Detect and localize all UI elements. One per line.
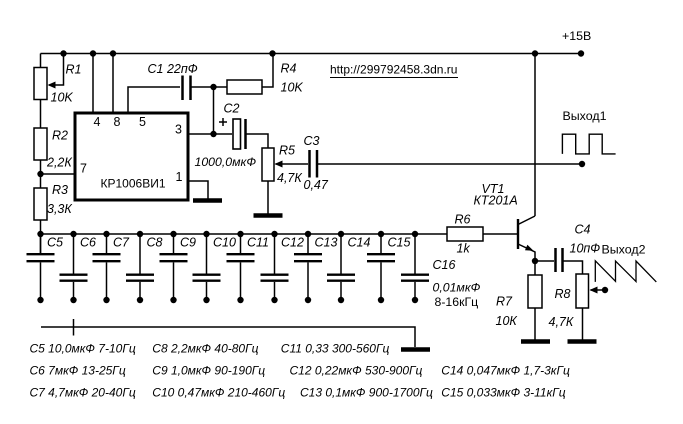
- svg-text:C11: C11: [247, 236, 269, 250]
- svg-text:С15 0,033мкФ 3-11кГц: С15 0,033мкФ 3-11кГц: [441, 385, 565, 399]
- wire R2 to R3: [40, 160, 42, 188]
- svg-text:0,01мкФ: 0,01мкФ: [433, 281, 481, 295]
- node bus junction C15: [378, 231, 384, 237]
- svg-text:C5: C5: [47, 236, 63, 250]
- node junction pin4 on rail: [90, 50, 96, 56]
- svg-text:С9 1,0мкФ 90-190Гц: С9 1,0мкФ 90-190Гц: [152, 363, 265, 377]
- node junction pin8 on rail: [110, 50, 116, 56]
- wire selector common: [41, 327, 415, 347]
- label R6 value 1k: [457, 242, 471, 256]
- wire R4 to rail: [262, 54, 273, 88]
- transistor VT1 collector: [518, 216, 535, 225]
- label R3 value 3,3K: [47, 202, 72, 216]
- svg-text:КР1006ВИ1: КР1006ВИ1: [101, 177, 166, 191]
- svg-text:http://299792458.3dn.ru: http://299792458.3dn.ru: [330, 63, 457, 77]
- node output1 terminal: [579, 161, 585, 167]
- capacitor C3 left plate: [308, 150, 311, 178]
- node bus junction C8: [137, 231, 143, 237]
- svg-text:4,7К: 4,7К: [277, 171, 302, 185]
- label VT1: [482, 182, 505, 196]
- capacitor C13: [294, 234, 322, 300]
- svg-text:R8: R8: [555, 287, 571, 301]
- label URL: [330, 63, 457, 77]
- op-amp U1 timer KR1006VI1 body: [75, 113, 188, 200]
- wire R5 wiper from C3: [276, 163, 309, 165]
- svg-text:1000,0мкФ: 1000,0мкФ: [195, 155, 257, 169]
- label C9: [180, 236, 196, 250]
- wire C2 to R5: [247, 134, 269, 148]
- node bus junction C13: [305, 231, 311, 237]
- svg-text:C4: C4: [575, 223, 591, 237]
- label note C5: [30, 341, 136, 355]
- label note C6: [30, 363, 126, 377]
- node bus junction C16: [412, 231, 418, 237]
- wire C4 to R8: [564, 261, 583, 274]
- pin 5 wire: [128, 87, 180, 113]
- svg-text:3,3К: 3,3К: [47, 202, 72, 216]
- svg-text:1: 1: [176, 170, 183, 184]
- label C16 value 0,01мкФ: [433, 281, 481, 295]
- label C16: [433, 258, 456, 272]
- node +15V terminal: [578, 50, 584, 56]
- svg-text:7: 7: [80, 162, 87, 176]
- svg-text:10К: 10К: [496, 314, 518, 328]
- VT1 emitter arrowhead: [525, 245, 534, 251]
- node C6 bottom contact: [70, 297, 76, 303]
- resistor R1: [34, 68, 47, 100]
- label C2 value 1000,0мкФ: [195, 155, 257, 169]
- wire R7 to ground: [534, 308, 536, 340]
- svg-text:R1: R1: [66, 63, 82, 77]
- label C12: [281, 236, 304, 250]
- wire +15V top rail: [41, 53, 582, 55]
- label R4: [281, 62, 297, 76]
- label C14: [348, 236, 371, 250]
- label R4 value 10K: [281, 81, 304, 95]
- capacitor C4 left plate: [554, 248, 557, 272]
- capacitor C8: [126, 234, 154, 300]
- resistor R2: [34, 128, 47, 160]
- svg-text:8: 8: [114, 115, 121, 129]
- node bus junction C10: [203, 231, 209, 237]
- svg-text:8-16кГц: 8-16кГц: [435, 295, 479, 309]
- pin 3 label: [175, 123, 182, 137]
- pin 8 label: [114, 115, 121, 129]
- wire R1 to R2: [40, 100, 42, 129]
- ground pin1: [193, 198, 222, 203]
- waveform square wave output1: [562, 134, 615, 154]
- label R1: [66, 63, 82, 77]
- wire emitter to C4: [535, 260, 554, 262]
- svg-text:10K: 10K: [281, 81, 304, 95]
- capacitor C3 right plate: [316, 150, 319, 178]
- resistor R5: [262, 148, 274, 181]
- wire C1 to node: [192, 86, 214, 88]
- label U1 name: [101, 177, 166, 191]
- capacitor C5: [27, 234, 55, 300]
- capacitor C12: [261, 234, 289, 300]
- pin 4 wire: [92, 54, 94, 114]
- node junction R4 on rail: [269, 50, 275, 56]
- label note C14: [441, 363, 570, 377]
- svg-text:C15: C15: [388, 236, 411, 250]
- node C15 bottom contact: [378, 297, 384, 303]
- label C15: [388, 236, 411, 250]
- label C7: [113, 236, 130, 250]
- svg-text:R5: R5: [279, 144, 295, 158]
- label note C7: [30, 385, 136, 399]
- wire R8 to ground: [582, 308, 584, 340]
- svg-text:C16: C16: [433, 258, 456, 272]
- svg-text:Выход2: Выход2: [602, 243, 646, 257]
- svg-text:C13: C13: [315, 236, 338, 250]
- label R5: [279, 144, 295, 158]
- R1 wiper arrowhead: [48, 82, 56, 89]
- node C5 bottom contact: [37, 297, 43, 303]
- node C12 bottom contact: [271, 297, 277, 303]
- node junction C1-R4-C2: [210, 84, 216, 90]
- svg-text:Выход1: Выход1: [563, 109, 607, 123]
- label R7: [496, 295, 513, 309]
- label note C13: [300, 385, 433, 399]
- capacitor C9: [160, 234, 188, 300]
- ground R7: [521, 339, 550, 344]
- label R5 value 4,7K: [277, 171, 302, 185]
- svg-text:10K: 10K: [51, 91, 74, 105]
- svg-text:4,7К: 4,7К: [549, 315, 574, 329]
- svg-text:КТ201А: КТ201А: [474, 194, 518, 208]
- label R2 value 2,2K: [46, 156, 72, 170]
- svg-text:C10: C10: [213, 236, 236, 250]
- svg-text:C3: C3: [304, 134, 320, 148]
- svg-text:C12: C12: [281, 236, 304, 250]
- svg-text:C6: C6: [80, 236, 96, 250]
- svg-text:+15В: +15В: [562, 29, 591, 43]
- node bus junction C5: [37, 231, 43, 237]
- svg-text:С13 0,1мкФ 900-1700Гц: С13 0,1мкФ 900-1700Гц: [300, 385, 433, 399]
- node bus junction C11: [237, 231, 243, 237]
- label note C9: [152, 363, 265, 377]
- label R3: [52, 183, 68, 197]
- svg-text:R7: R7: [496, 295, 513, 309]
- R5 wiper arrowhead: [275, 161, 283, 168]
- node R8 wiper terminal: [602, 287, 608, 293]
- svg-text:0,47: 0,47: [304, 178, 329, 192]
- node C16 bottom contact: [412, 297, 418, 303]
- svg-text:R2: R2: [52, 129, 68, 143]
- resistor R6: [447, 227, 483, 241]
- node bus junction C14: [338, 231, 344, 237]
- svg-text:С8 2,2мкФ 40-80Гц: С8 2,2мкФ 40-80Гц: [152, 341, 258, 355]
- node C8 bottom contact: [137, 297, 143, 303]
- label +15В: [562, 29, 591, 43]
- svg-text:2,2К: 2,2К: [46, 156, 72, 170]
- label C1 22пФ: [148, 62, 198, 76]
- svg-text:С12 0,22мкФ 530-900Гц: С12 0,22мкФ 530-900Гц: [290, 363, 423, 377]
- wire node to R4: [214, 86, 228, 88]
- svg-text:С5 10,0мкФ 7-10Гц: С5 10,0мкФ 7-10Гц: [30, 341, 136, 355]
- resistor R7: [528, 275, 542, 308]
- node junction R2-R3 pin7: [37, 171, 43, 177]
- svg-text:C7: C7: [113, 236, 130, 250]
- ground R5: [254, 213, 283, 218]
- label C11: [247, 236, 269, 250]
- node C9 bottom contact: [170, 297, 176, 303]
- ground selector: [401, 347, 430, 352]
- node emitter junction: [532, 258, 538, 264]
- svg-text:1k: 1k: [457, 242, 471, 256]
- label C16 freq 8-16кГц: [435, 295, 479, 309]
- label R1 value 10K: [51, 91, 74, 105]
- svg-text:C9: C9: [180, 236, 196, 250]
- svg-text:C1 22пФ: C1 22пФ: [148, 62, 198, 76]
- svg-text:C2: C2: [224, 102, 240, 116]
- capacitor C15: [367, 234, 395, 300]
- capacitor C4 right plate: [561, 248, 564, 272]
- label Выход1: [563, 109, 607, 123]
- label C13: [315, 236, 338, 250]
- svg-text:С11 0,33 300-560Гц: С11 0,33 300-560Гц: [281, 341, 390, 355]
- svg-text:С6 7мкФ 13-25Гц: С6 7мкФ 13-25Гц: [30, 363, 126, 377]
- svg-text:С10 0,47мкФ 210-460Гц: С10 0,47мкФ 210-460Гц: [152, 385, 285, 399]
- label note C12: [290, 363, 423, 377]
- svg-text:R3: R3: [52, 183, 68, 197]
- wire pin1 to ground: [188, 181, 208, 199]
- pin 7 label: [80, 162, 87, 176]
- waveform sawtooth output2: [595, 261, 656, 282]
- capacitor C2 right plate: [244, 119, 247, 149]
- wire emitter to R7: [534, 261, 536, 275]
- wire R5 to ground: [267, 181, 269, 214]
- capacitor C1 left plate: [181, 76, 184, 101]
- label R8: [555, 287, 571, 301]
- capacitor C11: [227, 234, 255, 300]
- wire selector contact tick: [73, 319, 75, 336]
- label C3 value 0,47: [304, 178, 329, 192]
- label C4: [575, 223, 591, 237]
- label C2: [224, 102, 240, 116]
- node junction R1 wiper on rail: [60, 50, 66, 56]
- svg-text:4: 4: [94, 115, 101, 129]
- label R2: [52, 129, 68, 143]
- pin 5 label: [139, 115, 146, 129]
- pin 1 label: [176, 170, 183, 184]
- node C7 bottom contact: [103, 297, 109, 303]
- capacitor C6: [60, 234, 88, 300]
- pin 8 wire: [112, 54, 114, 114]
- wire rail to VT1 collector: [534, 54, 536, 217]
- wire pin7: [41, 173, 76, 175]
- wire node down to pin3 node: [213, 87, 215, 134]
- label R6: [455, 213, 471, 227]
- svg-text:R6: R6: [455, 213, 471, 227]
- label C4 value 10пФ: [570, 242, 601, 256]
- wire R1 top lead: [40, 54, 42, 68]
- node bus junction C9: [170, 231, 176, 237]
- svg-text:C14: C14: [348, 236, 371, 250]
- svg-text:C8: C8: [147, 236, 163, 250]
- resistor R4: [227, 80, 262, 94]
- capacitor C1 right plate: [189, 76, 192, 101]
- node junction pin3-C2: [210, 131, 216, 137]
- svg-text:3: 3: [175, 123, 182, 137]
- capacitor C10: [193, 234, 221, 300]
- capacitor C14: [327, 234, 355, 300]
- label note C10: [152, 385, 285, 399]
- label C8: [147, 236, 163, 250]
- wire R8 wiper: [591, 289, 606, 291]
- label note C11: [281, 341, 390, 355]
- label note C15: [441, 385, 565, 399]
- node bus junction C6: [70, 231, 76, 237]
- svg-text:R4: R4: [281, 62, 297, 76]
- wire R1 wiper: [49, 54, 64, 86]
- node bus junction C7: [103, 231, 109, 237]
- label Выход2: [602, 243, 646, 257]
- wire capacitor bank bus: [41, 233, 448, 235]
- wire R6 to VT1 base: [483, 233, 517, 235]
- node C13 bottom contact: [305, 297, 311, 303]
- resistor R3: [34, 188, 47, 220]
- svg-text:С14 0,047мкФ 1,7-3кГц: С14 0,047мкФ 1,7-3кГц: [441, 363, 570, 377]
- URL underline: [330, 77, 458, 79]
- capacitor C16: [401, 234, 429, 300]
- node C10 bottom contact: [203, 297, 209, 303]
- node C14 bottom contact: [338, 297, 344, 303]
- svg-text:10пФ: 10пФ: [570, 242, 601, 256]
- node C11 bottom contact: [237, 297, 243, 303]
- pin 3 wire: [188, 133, 232, 135]
- resistor R8: [576, 274, 589, 308]
- label VT1 type КТ201А: [474, 194, 518, 208]
- label R7 value 10K: [496, 314, 518, 328]
- pin 4 label: [94, 115, 101, 129]
- label R8 value 4,7K: [549, 315, 574, 329]
- ground R8: [568, 339, 597, 344]
- label C3: [304, 134, 320, 148]
- capacitor C7: [93, 234, 121, 300]
- label C10: [213, 236, 236, 250]
- wire C3 to output1: [318, 163, 582, 165]
- node bus junction C12: [271, 231, 277, 237]
- R8 wiper arrowhead: [590, 287, 598, 294]
- svg-text:5: 5: [139, 115, 146, 129]
- label note C8: [152, 341, 258, 355]
- label C5: [47, 236, 63, 250]
- transistor VT1 base bar: [517, 219, 519, 249]
- wire R3 to bus: [40, 220, 42, 253]
- capacitor C2 left plate (box): [233, 119, 241, 149]
- node junction VT1 collector on rail: [532, 50, 538, 56]
- capacitor C2 plus sign: [219, 118, 227, 126]
- transistor VT1 emitter: [518, 244, 535, 261]
- label C6: [80, 236, 96, 250]
- svg-text:С7 4,7мкФ 20-40Гц: С7 4,7мкФ 20-40Гц: [30, 385, 136, 399]
